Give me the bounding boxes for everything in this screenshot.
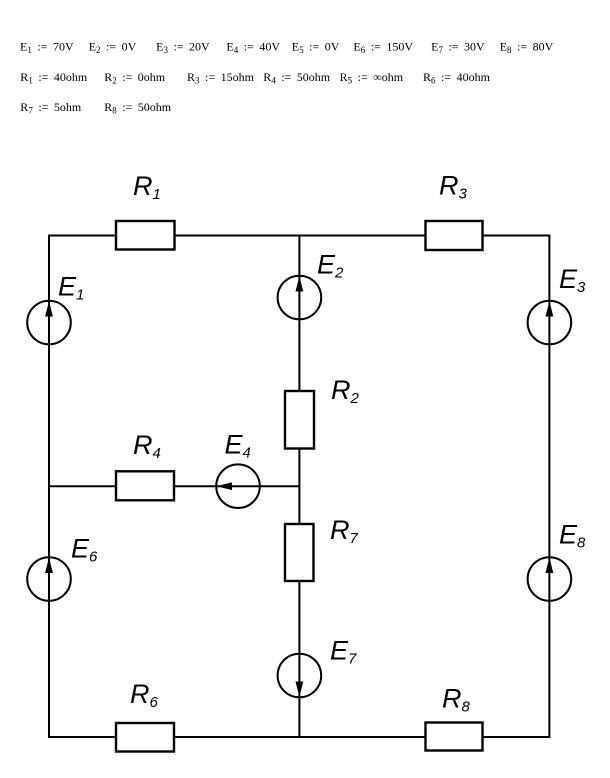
source E8 [528,557,572,601]
source E7 [278,654,322,698]
source E3 [528,301,572,345]
svg-text:E2 := 0V: E2 := 0V [89,40,137,56]
source E4 [216,464,260,508]
wire middle vertical [298,235,300,739]
resistor R2 [285,391,314,449]
source E1 [27,301,71,345]
wire top horizontal [48,235,550,237]
resistor R8 [426,723,483,751]
resistor R3 [426,221,483,250]
header line 1: E values [20,40,554,56]
resistor R4 [116,471,174,500]
wire bottom horizontal [48,736,550,738]
resistor R6 [116,723,174,752]
resistor R1 [116,221,175,250]
resistor R7 [285,524,314,581]
source E6 [27,557,71,601]
wire right vertical [548,235,550,739]
wire middle horizontal [48,485,299,487]
svg-text:E5 := 0V: E5 := 0V [292,40,340,56]
header line 3: R7 R8 values [20,100,172,116]
header line 2: R values [20,70,490,86]
wire left vertical [48,235,50,739]
source E2 [278,276,322,320]
